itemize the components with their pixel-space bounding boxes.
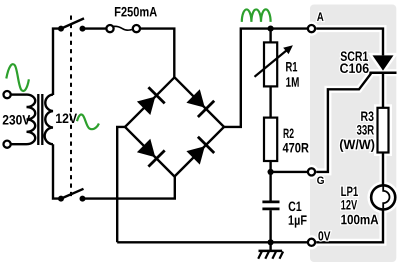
ground symbol [258,242,283,258]
label LP1 [341,187,358,196]
dashed switch linkage [70,16,72,197]
wire node G to SCR gate [316,74,371,172]
core line left [37,94,39,145]
switch SW1a dot left [58,26,64,32]
resistor R1 1M (variable) [264,42,277,86]
wire switch to bridge bottom [83,176,175,199]
secondary coil [45,95,53,145]
lamp LP1 filament [383,186,389,208]
wire bridge left vertex to 0V rail [117,127,125,242]
gray output panel [310,5,396,263]
primary terminal top [4,91,11,98]
0V rail [117,241,307,243]
core line right [41,94,43,145]
bridge rectifier diamond [125,77,224,176]
label 230V [3,115,31,125]
wire node 0V to lamp [316,208,383,243]
label SCR1 [341,51,368,61]
wire R1 to R2 [269,86,271,117]
label node 0V [318,231,330,240]
diode D4 bottom-right [186,137,214,165]
diode D1 top-left [137,87,165,115]
label 1M [286,77,299,86]
junction dot at G wire [268,169,274,175]
wire SCR to R3 [382,74,384,108]
white halos under panel elements [308,25,397,246]
label R3 [361,111,373,121]
label 12V secondary [56,114,77,124]
wire secondary bottom to bottom switch [53,144,61,198]
resistor R2 470R [264,118,277,161]
switch SW1b dot right [80,196,86,202]
label C106 [340,63,369,73]
diode D3 bottom-left [137,139,165,167]
wire R2 to C1 [269,161,271,201]
wire secondary top to top switch [53,29,61,95]
primary coil [27,95,36,145]
resistor R3 33R [378,108,389,153]
label 33R [357,125,374,135]
wire bottom terminal to coil [11,143,27,145]
primary terminal bottom [4,141,11,148]
green rectified waveform [242,9,271,22]
wire R3 to lamp [382,153,384,192]
fuse F1 F250mA [106,25,113,32]
label node A [317,12,324,21]
label R2 [284,129,294,139]
wire top rail to R1 [269,29,271,43]
transformer T1 [4,91,54,148]
SCR1 cathode bar [369,71,396,74]
green sine 230V input [6,64,29,91]
capacitor C1 plate bottom [262,208,279,211]
wire fuse to bridge top [140,29,174,78]
node G [308,168,315,175]
switch SW1b lever [61,189,84,199]
wire C1 to 0V rail [269,210,271,242]
junction dot at ground [268,239,274,245]
wire junction to node G [271,171,307,173]
label (W/W) [340,139,374,152]
switch SW1a dot right [80,26,86,32]
label 12V lamp [341,200,357,210]
label 470R [283,143,309,153]
capacitor C1 plate top [262,201,279,204]
wire node A to SCR anode [316,29,383,56]
label C1 [289,202,302,212]
wire top terminal to coil [11,93,27,95]
switch SW1b dot left [58,196,64,202]
wire bridge right vertex to top rail [224,29,307,127]
SCR1 C106 thyristor triangle [373,55,394,70]
label node G [317,177,324,185]
switch SW1a lever [61,18,84,28]
node A [308,25,315,32]
label R1 [286,62,297,71]
label 100mA [341,215,378,225]
wire switch to fuse [83,27,107,29]
node 0V [308,239,315,246]
diode D2 top-right [186,89,214,117]
green sine 12V secondary [77,115,99,130]
junction dot at R1 top [268,26,274,32]
label F250mA [115,7,157,17]
lamp LP1 circle [371,185,395,209]
label 1uF [289,215,307,227]
